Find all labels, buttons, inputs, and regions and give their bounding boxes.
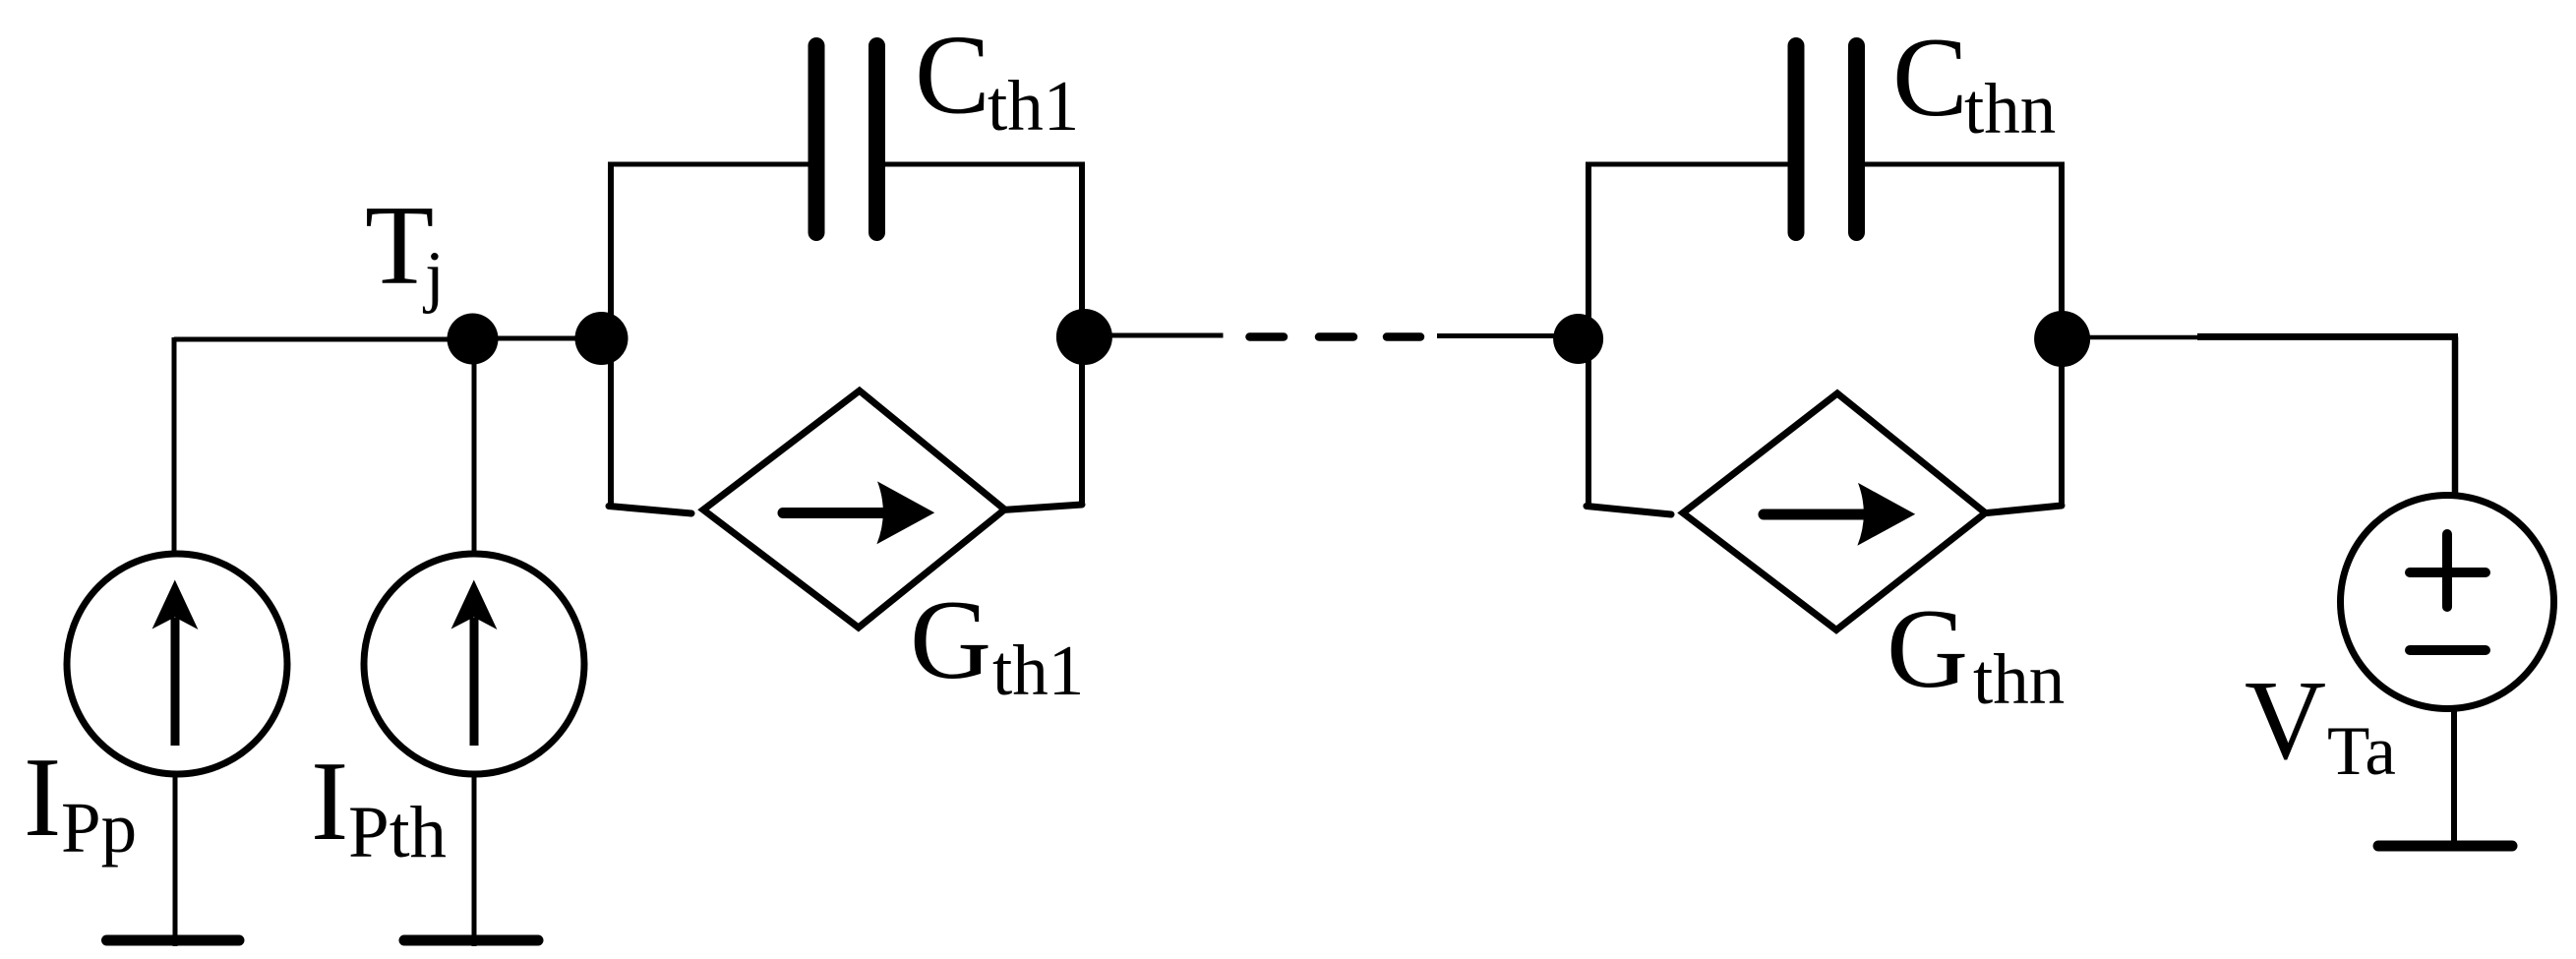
svg-text:thn: thn — [1964, 69, 2056, 149]
svg-text:I: I — [24, 735, 61, 860]
wire loop2 left vertical — [1586, 162, 1591, 507]
capacitor Cth1 plate 1 — [809, 46, 825, 233]
svg-text:Pth: Pth — [348, 792, 447, 873]
node loop2 right dot — [2034, 311, 2090, 367]
wire dash 3 — [1387, 332, 1420, 341]
svg-text:C: C — [1892, 15, 1968, 140]
current source IPp arrow — [152, 580, 199, 747]
Gth1 arrow — [783, 481, 934, 544]
wire dot1 to dot2 — [472, 336, 608, 341]
VTa plus — [2410, 534, 2486, 607]
Gthn arrow — [1764, 483, 1915, 546]
svg-text:G: G — [910, 577, 991, 702]
dependent source Gth1 diamond — [703, 390, 1005, 628]
node dot2 — [575, 312, 629, 365]
wire loop2 top rail right — [1858, 162, 2065, 167]
wire loop2 right vertical — [2059, 162, 2065, 506]
wire loop1 left vertical — [608, 162, 614, 507]
wire to VTa thicker segment — [2197, 333, 2458, 340]
svg-text:Pp: Pp — [61, 788, 137, 868]
wire loop1 top rail right — [878, 162, 1085, 167]
voltage source VTa circle — [2341, 496, 2554, 709]
capacitor Cthn plate 2 — [1848, 46, 1865, 233]
wire to VTa — [2063, 335, 2203, 340]
wire dash 2 — [1319, 332, 1353, 341]
wire loop2 top rail left — [1586, 162, 1794, 167]
wire node Tj horizontal rail — [174, 337, 474, 342]
svg-text:C: C — [915, 13, 990, 138]
svg-text:Ta: Ta — [2327, 713, 2396, 790]
svg-text:th1: th1 — [988, 66, 1079, 146]
svg-text:j: j — [422, 238, 445, 315]
wire down to VTa circle — [2452, 336, 2459, 494]
wire IPth to ground — [472, 774, 477, 946]
dependent source Gthn diamond — [1683, 393, 1986, 630]
svg-text:th1: th1 — [992, 630, 1084, 710]
wire dashed link solid right — [1437, 333, 1580, 338]
wire VTa to ground — [2451, 709, 2457, 846]
VTa minus — [2410, 645, 2486, 655]
svg-text:I: I — [311, 739, 348, 864]
wire loop1 right vertical — [1079, 162, 1085, 506]
svg-text:thn: thn — [1973, 639, 2065, 719]
svg-text:V: V — [2245, 658, 2326, 783]
node loop2 left dot — [1553, 314, 1603, 364]
svg-text:T: T — [365, 183, 434, 308]
wire stub right from Gthn — [1987, 506, 2062, 513]
wire dot1 down to IPth — [472, 339, 477, 553]
wire stub left to Gthn — [1587, 507, 1671, 515]
current source IPp circle — [67, 554, 287, 774]
wire IPp to ground — [173, 774, 178, 946]
node loop1 right dot — [1056, 309, 1112, 365]
node Tj dot — [448, 314, 499, 365]
ground IPth — [404, 935, 538, 946]
wire loop1 top rail left — [608, 162, 814, 167]
ground VTa — [2378, 841, 2512, 852]
wire dashed link solid left — [1084, 333, 1224, 338]
current source IPth circle — [364, 554, 584, 774]
wire stub left to Gth1 — [609, 507, 691, 514]
wire stub right from Gth1 — [1006, 505, 1082, 509]
wire dash 1 — [1250, 332, 1285, 341]
ground IPp — [107, 935, 240, 946]
wire vertical down to IPp — [172, 337, 177, 553]
svg-text:G: G — [1887, 586, 1968, 711]
capacitor Cth1 plate 2 — [869, 46, 885, 233]
capacitor Cthn plate 1 — [1788, 46, 1805, 233]
current source IPth arrow — [451, 580, 498, 747]
